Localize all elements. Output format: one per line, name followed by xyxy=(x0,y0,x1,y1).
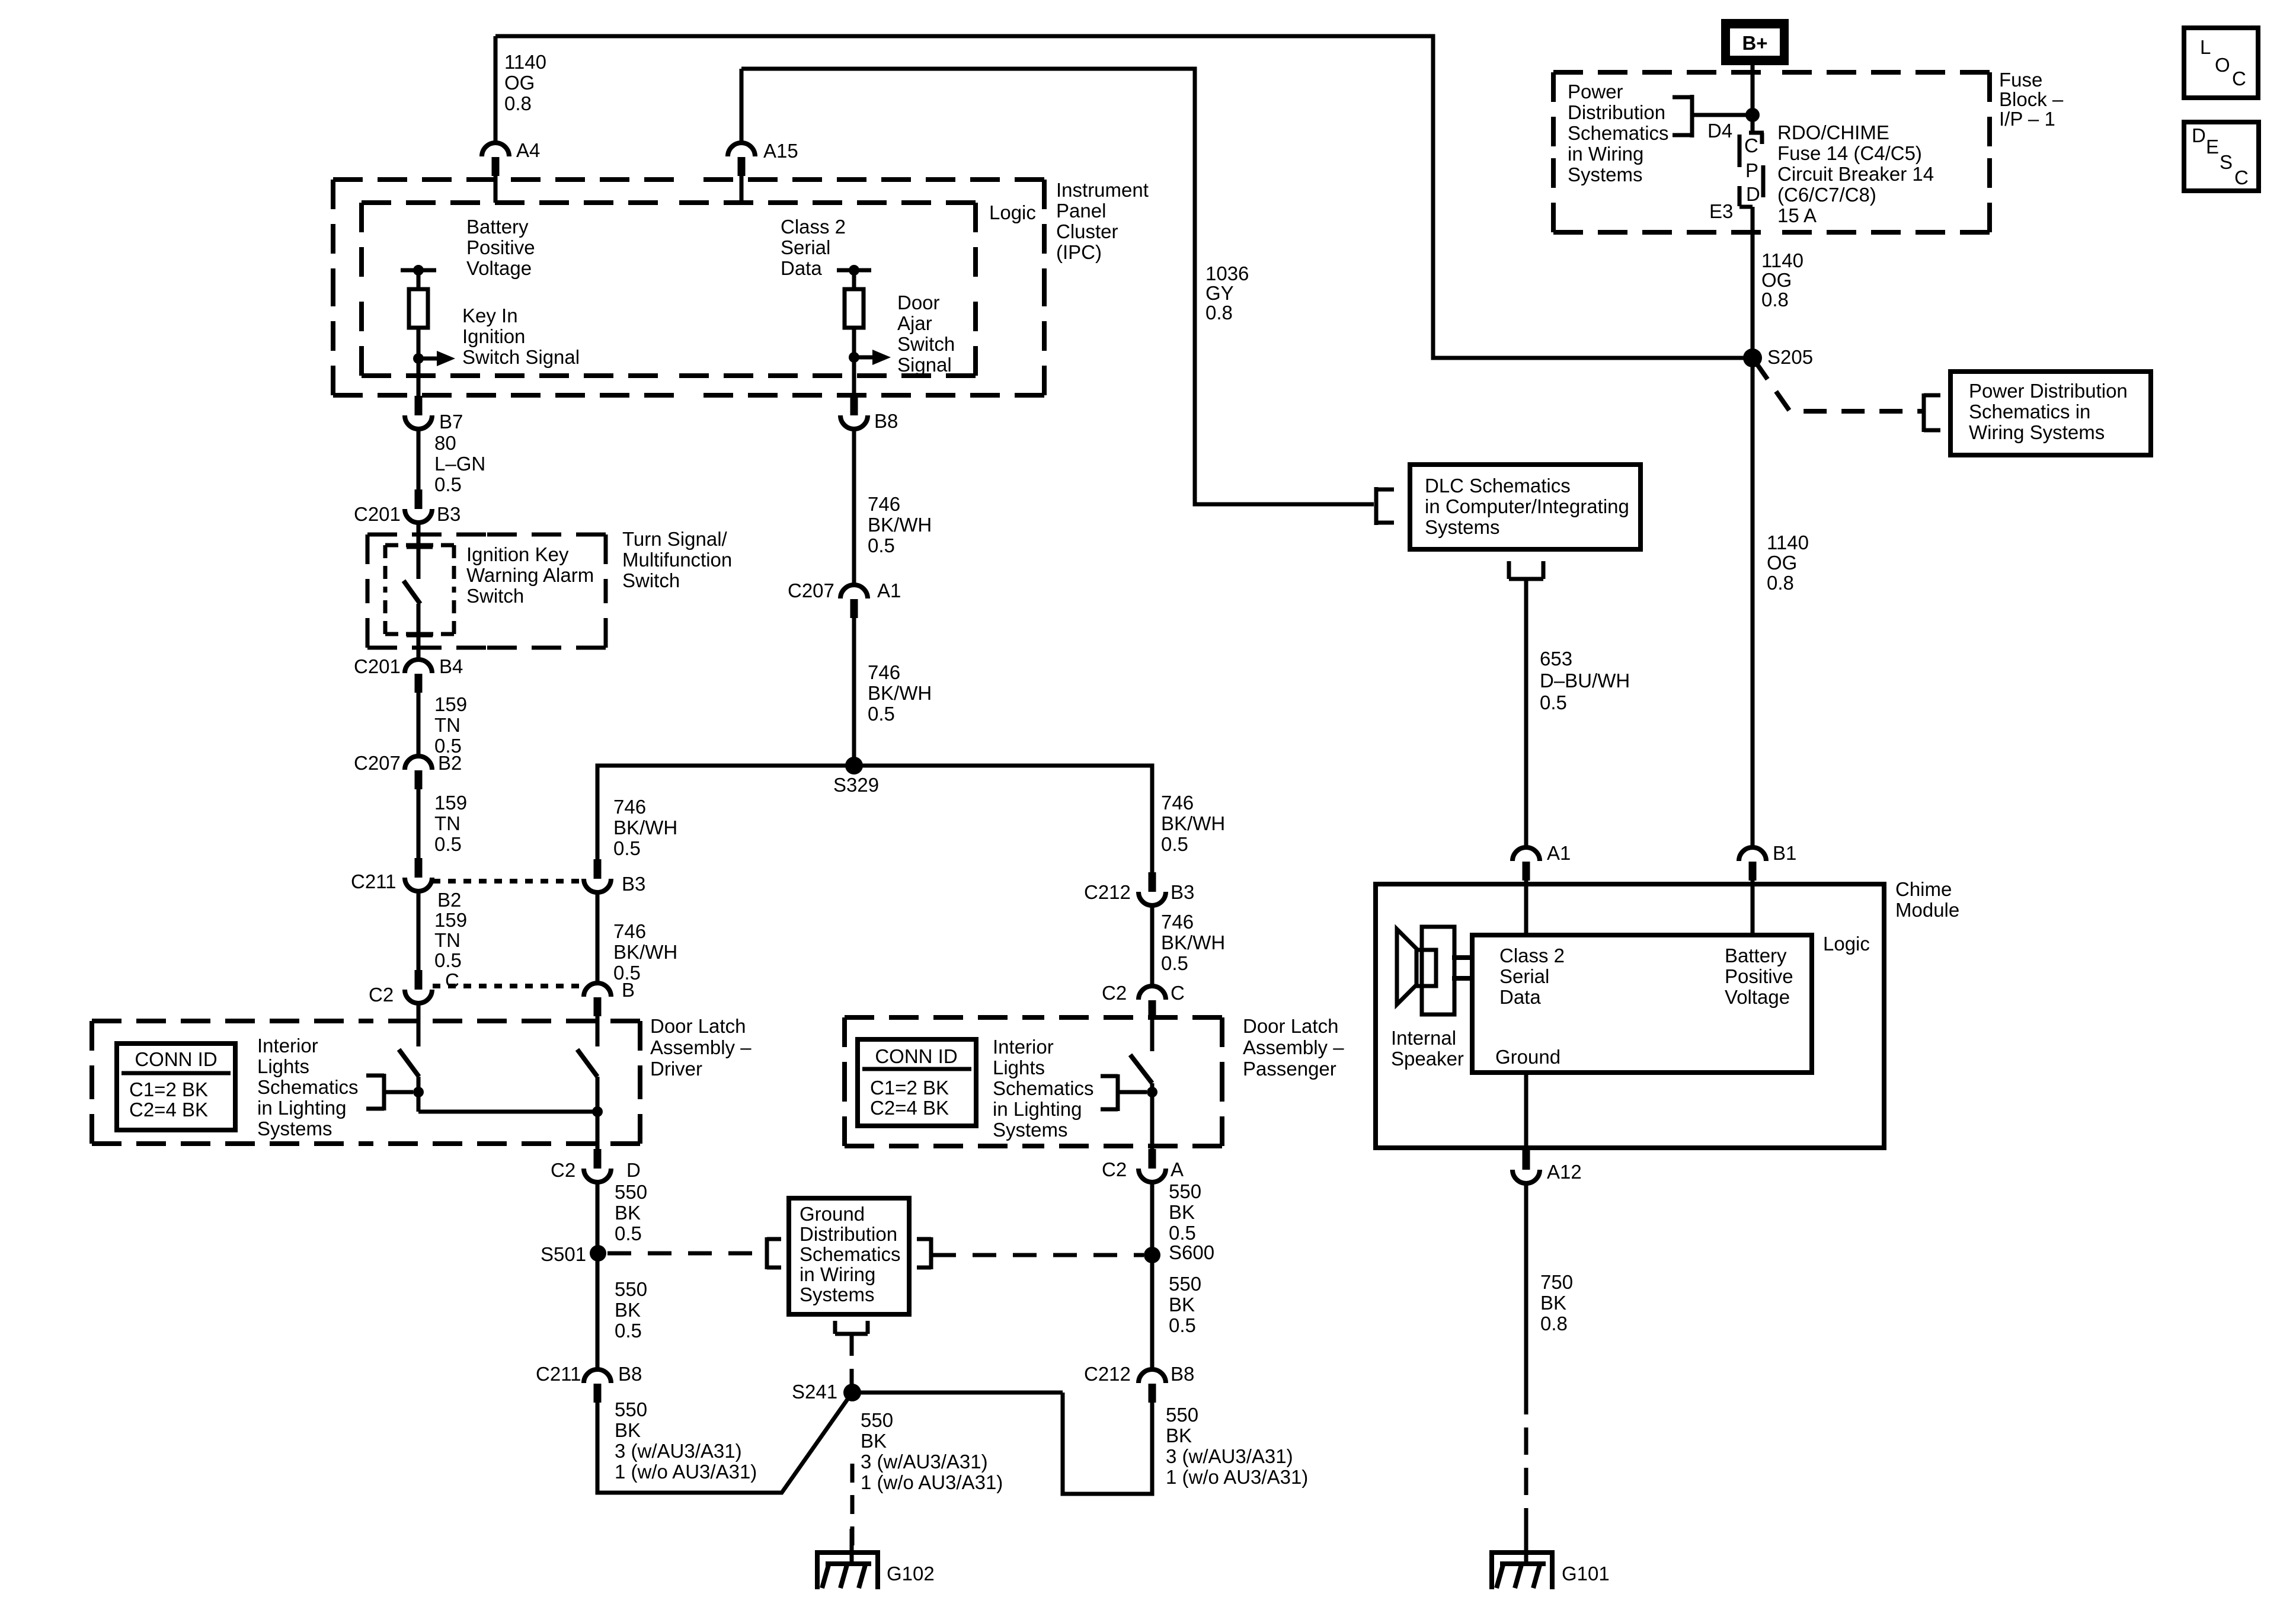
node: door-ajar signal junction xyxy=(849,352,859,363)
resistor key-in ignition (IPC) xyxy=(409,289,428,328)
svg-text:C207: C207 xyxy=(788,580,834,601)
wire: S241 to passenger loop xyxy=(852,1391,1063,1395)
svg-text:B1: B1 xyxy=(1773,842,1796,864)
IPC Logic inner dashed box xyxy=(362,200,669,205)
svg-text:S329: S329 xyxy=(833,774,879,796)
CONN ID box (driver) xyxy=(117,1044,235,1130)
svg-text:E: E xyxy=(2206,136,2219,158)
svg-text:Schematics: Schematics xyxy=(1568,122,1669,144)
connector C211 B8 xyxy=(584,1369,611,1383)
svg-text:Switch Signal: Switch Signal xyxy=(462,346,580,368)
wire: C211 B8 to S241 xyxy=(597,1393,852,1493)
node: latch switch tie xyxy=(1147,1087,1157,1097)
resistor door ajar (IPC) xyxy=(845,289,864,328)
Power Distribution Schematics in Wiring Systems box xyxy=(1950,372,2151,455)
svg-text:Wiring Systems: Wiring Systems xyxy=(1969,421,2105,443)
svg-text:C: C xyxy=(2234,167,2249,188)
wire: A1 pin to logic xyxy=(1524,881,1528,935)
switch blade driver latch left xyxy=(399,1049,419,1077)
svg-text:C201: C201 xyxy=(354,503,401,525)
svg-text:C2: C2 xyxy=(1102,1158,1127,1180)
signal arrow: Key In Ignition Switch Signal xyxy=(422,357,437,361)
connector A4 (IPC) xyxy=(482,143,509,156)
svg-text:Switch: Switch xyxy=(622,569,680,591)
svg-text:Power Distribution: Power Distribution xyxy=(1969,380,2128,402)
node: key-in signal junction xyxy=(413,353,424,364)
Door Latch Assembly - Passenger dashed box xyxy=(845,1015,1034,1020)
svg-text:Speaker: Speaker xyxy=(1391,1048,1464,1070)
node S205 xyxy=(1743,348,1762,367)
svg-text:A12: A12 xyxy=(1547,1161,1582,1183)
svg-text:S501: S501 xyxy=(541,1243,586,1265)
svg-text:Schematics in: Schematics in xyxy=(1969,401,2090,422)
svg-text:0.8: 0.8 xyxy=(504,92,532,114)
wire: A15 drop xyxy=(740,69,744,144)
connector C212 B8 xyxy=(1139,1369,1166,1383)
svg-text:Door: Door xyxy=(897,292,940,313)
svg-text:159: 159 xyxy=(434,792,467,814)
svg-text:159: 159 xyxy=(434,909,467,931)
svg-text:Fuse: Fuse xyxy=(1999,69,2042,91)
svg-text:Fuse 14 (C4/C5): Fuse 14 (C4/C5) xyxy=(1777,142,1922,164)
bracket DLC box bottom xyxy=(1507,561,1511,579)
wire: C207 B2 to C211 B2 xyxy=(417,789,421,858)
svg-text:746: 746 xyxy=(613,920,646,942)
svg-text:0.5: 0.5 xyxy=(1161,952,1188,974)
svg-text:Schematics: Schematics xyxy=(800,1243,901,1265)
svg-text:Passenger: Passenger xyxy=(1243,1058,1336,1080)
svg-text:in Lighting: in Lighting xyxy=(993,1098,1082,1120)
svg-text:550: 550 xyxy=(615,1398,647,1420)
svg-text:Chime: Chime xyxy=(1895,878,1952,900)
svg-text:0.5: 0.5 xyxy=(1540,692,1567,713)
svg-text:C2: C2 xyxy=(1102,982,1127,1004)
svg-text:Serial: Serial xyxy=(781,236,830,258)
svg-text:B8: B8 xyxy=(874,410,898,432)
svg-text:A15: A15 xyxy=(763,140,798,162)
svg-text:Multifunction: Multifunction xyxy=(622,549,732,571)
svg-text:1140: 1140 xyxy=(1767,532,1809,553)
svg-text:TN: TN xyxy=(434,714,461,736)
svg-text:1036: 1036 xyxy=(1205,263,1249,284)
wire: A4 pin into IPC xyxy=(494,176,498,203)
svg-text:A1: A1 xyxy=(1547,842,1571,864)
switch blade passenger latch xyxy=(1130,1055,1152,1083)
svg-text:80: 80 xyxy=(434,432,456,454)
svg-text:159: 159 xyxy=(434,693,467,715)
svg-text:B: B xyxy=(622,979,635,1001)
wire: S501 to C211 B8 xyxy=(596,1253,600,1370)
svg-text:Circuit Breaker 14: Circuit Breaker 14 xyxy=(1777,163,1934,185)
node: latch switch tie xyxy=(413,1087,424,1097)
svg-text:TN: TN xyxy=(434,929,461,951)
svg-text:0.5: 0.5 xyxy=(434,949,462,971)
svg-text:0.5: 0.5 xyxy=(868,534,895,556)
svg-text:C1=2 BK: C1=2 BK xyxy=(129,1078,208,1100)
wire: C2 A to S600 xyxy=(1150,1182,1155,1255)
svg-text:A1: A1 xyxy=(877,580,901,601)
svg-text:0.5: 0.5 xyxy=(615,1222,642,1244)
Instrument Panel Cluster outer dashed box xyxy=(333,177,689,182)
svg-text:L: L xyxy=(2200,36,2211,58)
bracket GD box bottom xyxy=(833,1321,837,1334)
dotted connector tie C211 B2-B3 xyxy=(433,879,584,884)
svg-text:Cluster: Cluster xyxy=(1056,220,1118,242)
svg-text:750: 750 xyxy=(1540,1271,1573,1293)
svg-text:C212: C212 xyxy=(1084,881,1131,903)
internal speaker symbol xyxy=(1397,929,1416,1004)
svg-text:Systems: Systems xyxy=(800,1283,875,1305)
wire: B1 pin to logic xyxy=(1751,881,1755,935)
wire xyxy=(417,328,421,359)
svg-text:746: 746 xyxy=(1161,792,1194,814)
svg-text:B3: B3 xyxy=(622,873,645,895)
wire: D4 tap xyxy=(1692,113,1753,117)
svg-text:C211: C211 xyxy=(536,1363,581,1385)
power symbol B+ xyxy=(1721,19,1789,65)
svg-text:RDO/CHIME: RDO/CHIME xyxy=(1777,121,1889,143)
Fuse Block - I/P - 1 dashed box xyxy=(1553,70,1771,75)
svg-text:0.5: 0.5 xyxy=(1169,1222,1196,1244)
wire: S329 branch right to passenger latch xyxy=(854,766,1152,872)
wire xyxy=(852,328,856,357)
wire: C2 C into latch xyxy=(1150,1019,1155,1051)
wire: A12 to ground (750 BK) xyxy=(1524,1183,1528,1387)
fuse/circuit-breaker CPD symbol (RDO/CHIME Fuse 14) xyxy=(1749,131,1764,135)
svg-text:OG: OG xyxy=(1761,269,1792,291)
svg-text:B3: B3 xyxy=(437,503,461,525)
svg-text:Assembly –: Assembly – xyxy=(1243,1036,1344,1058)
svg-text:BK: BK xyxy=(615,1419,641,1441)
dashed link S205 to Power Distribution Schematics xyxy=(1754,360,1922,411)
bracket to Interior Lights Schematics (driver) xyxy=(382,1074,386,1110)
svg-text:BK/WH: BK/WH xyxy=(1161,812,1225,834)
svg-text:C207: C207 xyxy=(354,752,401,774)
node S501 xyxy=(590,1245,606,1262)
svg-text:in Computer/Integrating: in Computer/Integrating xyxy=(1425,495,1629,517)
svg-text:O: O xyxy=(2215,54,2230,76)
svg-text:E3: E3 xyxy=(1709,200,1733,222)
wire: B+ into fuse block xyxy=(1751,65,1755,133)
svg-text:Class 2: Class 2 xyxy=(781,216,846,238)
svg-text:Module: Module xyxy=(1895,899,1959,921)
svg-text:Lights: Lights xyxy=(257,1055,309,1077)
svg-text:Distribution: Distribution xyxy=(1568,101,1665,123)
svg-text:1140: 1140 xyxy=(1761,249,1803,271)
wire: C2 C into latch xyxy=(417,1003,421,1046)
svg-text:BK: BK xyxy=(1166,1425,1192,1446)
svg-text:BK/WH: BK/WH xyxy=(868,514,932,536)
svg-text:A: A xyxy=(1171,1158,1184,1180)
svg-text:BK/WH: BK/WH xyxy=(613,817,677,838)
svg-text:(IPC): (IPC) xyxy=(1056,241,1102,263)
svg-text:Positive: Positive xyxy=(466,236,535,258)
svg-text:0.5: 0.5 xyxy=(615,1320,642,1342)
svg-text:Systems: Systems xyxy=(1568,164,1643,185)
connector B8 (IPC) xyxy=(850,396,858,415)
svg-text:P: P xyxy=(1745,159,1758,181)
svg-text:C201: C201 xyxy=(354,655,401,677)
svg-text:OG: OG xyxy=(504,72,535,94)
CONN ID box (passenger) xyxy=(858,1039,976,1126)
dotted connector tie C2 C-B xyxy=(433,984,584,988)
svg-text:Ignition: Ignition xyxy=(462,325,525,347)
svg-text:Interior: Interior xyxy=(993,1036,1054,1058)
svg-text:B8: B8 xyxy=(1171,1363,1194,1385)
svg-text:Systems: Systems xyxy=(1425,516,1500,538)
svg-text:15 A: 15 A xyxy=(1777,204,1817,226)
svg-text:D: D xyxy=(2192,124,2206,146)
svg-text:Driver: Driver xyxy=(650,1058,702,1080)
wire: C211 B3 to C2 B xyxy=(596,892,600,984)
svg-text:3 (w/AU3/A31): 3 (w/AU3/A31) xyxy=(861,1451,988,1473)
svg-text:Interior: Interior xyxy=(257,1035,318,1057)
svg-text:Data: Data xyxy=(1499,986,1541,1008)
svg-text:C: C xyxy=(1744,135,1758,156)
signal arrow: Door Ajar Switch Signal xyxy=(858,356,872,360)
connector C2 B (driver latch) xyxy=(584,983,611,997)
svg-text:0.8: 0.8 xyxy=(1205,302,1233,324)
connector C211 B3 xyxy=(594,859,602,879)
svg-text:G102: G102 xyxy=(887,1563,935,1585)
connector C211 B2 xyxy=(415,858,423,878)
svg-text:BK/WH: BK/WH xyxy=(868,682,932,704)
wire: C211 B2 to C2 C xyxy=(417,891,421,970)
connector A1 (chime module) xyxy=(1512,847,1540,861)
wire xyxy=(596,1077,600,1149)
dashed link S501 to Ground Distribution xyxy=(607,1251,764,1256)
switch contact bar bottom xyxy=(407,633,433,638)
svg-text:550: 550 xyxy=(861,1409,893,1431)
wire xyxy=(417,270,421,289)
svg-text:3 (w/AU3/A31): 3 (w/AU3/A31) xyxy=(615,1440,742,1462)
svg-text:Switch: Switch xyxy=(466,585,524,607)
wire xyxy=(1150,1083,1155,1149)
wire: S329 branch left to driver latch xyxy=(597,766,854,859)
svg-text:3 (w/AU3/A31): 3 (w/AU3/A31) xyxy=(1166,1445,1293,1467)
connector C2 C (driver latch) xyxy=(415,970,423,990)
svg-text:D: D xyxy=(1746,183,1760,205)
wire: class-2 serial data A15 to DLC (1036 GY) xyxy=(741,69,1374,504)
LOC reference box xyxy=(2184,28,2258,98)
svg-text:(C6/C7/C8): (C6/C7/C8) xyxy=(1777,184,1876,206)
svg-text:S600: S600 xyxy=(1169,1241,1214,1263)
svg-text:Serial: Serial xyxy=(1499,965,1549,987)
switch contact bar top xyxy=(407,545,433,549)
svg-text:C2: C2 xyxy=(551,1159,575,1181)
svg-text:Power: Power xyxy=(1568,81,1623,103)
svg-text:Voltage: Voltage xyxy=(1725,986,1790,1008)
svg-text:Distribution: Distribution xyxy=(800,1223,897,1245)
connector C201 B4 xyxy=(405,660,432,673)
svg-text:B+: B+ xyxy=(1742,32,1767,54)
bracket GD box left xyxy=(765,1237,769,1269)
node S329 xyxy=(845,757,863,774)
svg-text:Turn Signal/: Turn Signal/ xyxy=(622,528,728,550)
DLC Schematics box xyxy=(1410,465,1641,549)
svg-text:Instrument: Instrument xyxy=(1056,179,1149,201)
connector C2 C (passenger latch) xyxy=(1139,986,1166,1000)
svg-text:0.5: 0.5 xyxy=(868,703,895,725)
wire: B7 to C201 B3 xyxy=(417,428,421,489)
svg-text:0.8: 0.8 xyxy=(1767,572,1794,594)
svg-text:550: 550 xyxy=(615,1278,647,1300)
svg-text:Ajar: Ajar xyxy=(897,312,932,334)
svg-text:0.8: 0.8 xyxy=(1540,1313,1568,1334)
svg-text:BK/WH: BK/WH xyxy=(613,941,677,963)
wire: battery feed from fuse block S205 to IPC A4 (1140 OG) xyxy=(495,36,1753,358)
svg-text:B3: B3 xyxy=(1171,881,1194,903)
bracket D4 to Power Distribution Schematics xyxy=(1690,95,1694,137)
svg-text:746: 746 xyxy=(613,796,646,818)
svg-text:Battery: Battery xyxy=(466,216,529,238)
wire: DLC to chime A1 (653 D-BU/WH) xyxy=(1524,579,1528,848)
svg-text:B7: B7 xyxy=(439,411,463,433)
svg-text:OG: OG xyxy=(1767,552,1797,574)
svg-text:D4: D4 xyxy=(1707,120,1732,142)
bracket GD box right xyxy=(929,1237,933,1269)
svg-text:0.5: 0.5 xyxy=(1169,1314,1196,1336)
Ignition Key Warning Alarm Switch inner dashed box xyxy=(385,543,420,548)
svg-text:Door Latch: Door Latch xyxy=(1243,1015,1338,1037)
svg-text:C: C xyxy=(2232,68,2246,89)
svg-text:S241: S241 xyxy=(792,1381,837,1403)
svg-text:Key In: Key In xyxy=(462,305,518,327)
svg-text:L–GN: L–GN xyxy=(434,453,485,475)
svg-text:Warning Alarm: Warning Alarm xyxy=(466,564,594,586)
wire: A4 drop xyxy=(494,36,498,144)
svg-text:C211: C211 xyxy=(351,870,396,892)
connector B1 (chime module) xyxy=(1739,847,1766,861)
svg-text:in Wiring: in Wiring xyxy=(800,1263,875,1285)
svg-text:BK: BK xyxy=(615,1299,641,1321)
svg-text:S205: S205 xyxy=(1767,346,1813,368)
svg-text:Lights: Lights xyxy=(993,1057,1045,1078)
node: key-in rail tap xyxy=(401,268,436,273)
svg-text:GY: GY xyxy=(1205,282,1234,304)
svg-text:C: C xyxy=(1171,982,1185,1004)
svg-text:550: 550 xyxy=(1166,1404,1198,1426)
connector A15 (IPC) xyxy=(728,143,755,156)
svg-text:Block –: Block – xyxy=(1999,88,2064,110)
svg-text:Assembly –: Assembly – xyxy=(650,1036,752,1058)
node S241 xyxy=(843,1384,861,1401)
wire: key-in signal to B7 xyxy=(417,359,421,398)
svg-text:Data: Data xyxy=(781,257,822,279)
svg-text:Ground: Ground xyxy=(1495,1046,1560,1068)
connector C207 B2 xyxy=(405,756,432,770)
wire: E3 to S205 to B1 (1140 OG) xyxy=(1751,207,1755,848)
svg-text:C2=4 BK: C2=4 BK xyxy=(129,1099,208,1121)
svg-text:BK: BK xyxy=(1169,1294,1195,1315)
svg-text:DLC Schematics: DLC Schematics xyxy=(1425,475,1571,497)
svg-text:C212: C212 xyxy=(1084,1363,1131,1385)
svg-text:746: 746 xyxy=(868,661,900,683)
wire: chime ground out xyxy=(1524,1073,1528,1150)
svg-text:in Lighting: in Lighting xyxy=(257,1097,346,1119)
svg-text:B2: B2 xyxy=(437,889,461,911)
svg-text:BK: BK xyxy=(861,1430,887,1452)
svg-text:0.5: 0.5 xyxy=(613,837,641,859)
svg-text:I/P – 1: I/P – 1 xyxy=(1999,108,2055,130)
wire: S600 to C212 B8 xyxy=(1150,1255,1155,1370)
svg-text:1140: 1140 xyxy=(504,51,546,73)
svg-text:550: 550 xyxy=(1169,1273,1201,1295)
svg-text:Voltage: Voltage xyxy=(466,257,532,279)
svg-text:0.5: 0.5 xyxy=(434,473,462,495)
svg-text:746: 746 xyxy=(1161,911,1194,933)
wire: C212 B8 loop to S241 xyxy=(1063,1393,1152,1494)
svg-text:550: 550 xyxy=(615,1181,647,1203)
svg-text:Panel: Panel xyxy=(1056,200,1106,222)
svg-text:550: 550 xyxy=(1169,1180,1201,1202)
node xyxy=(592,1106,603,1117)
connector B7 (IPC) xyxy=(415,396,423,415)
svg-text:S: S xyxy=(2220,151,2233,173)
svg-text:C1=2 BK: C1=2 BK xyxy=(870,1077,949,1099)
connector C2 A (passenger latch) xyxy=(1149,1149,1156,1169)
connector C212 B3 xyxy=(1149,872,1156,892)
Ground Distribution Schematics box xyxy=(789,1198,909,1314)
svg-text:Signal: Signal xyxy=(897,354,952,376)
connector A12 (chime module) xyxy=(1523,1150,1530,1170)
svg-text:Ignition Key: Ignition Key xyxy=(466,543,569,565)
svg-text:Schematics: Schematics xyxy=(993,1077,1094,1099)
bracket to DLC box xyxy=(1374,487,1379,525)
svg-text:653: 653 xyxy=(1540,648,1572,670)
wire xyxy=(852,270,856,289)
svg-text:G101: G101 xyxy=(1562,1563,1610,1585)
connector C201 B3 xyxy=(415,489,423,509)
svg-text:1 (w/o AU3/A31): 1 (w/o AU3/A31) xyxy=(1166,1466,1308,1488)
node: door-ajar rail tap xyxy=(837,268,871,273)
svg-text:BK: BK xyxy=(1169,1201,1195,1223)
svg-text:CONN ID: CONN ID xyxy=(135,1048,217,1070)
Chime Module box xyxy=(1376,884,1884,1148)
svg-text:D–BU/WH: D–BU/WH xyxy=(1540,670,1630,692)
connector C207 A1 xyxy=(840,585,868,598)
wire: A15 pin into IPC xyxy=(740,176,744,203)
bracket to Interior Lights Schematics (passenger) xyxy=(1116,1074,1120,1111)
switch blade driver latch right xyxy=(577,1049,597,1077)
wire: C2 B into latch xyxy=(596,1016,600,1046)
svg-text:Door Latch: Door Latch xyxy=(650,1015,746,1037)
svg-text:in Wiring: in Wiring xyxy=(1568,143,1643,165)
wire: door-ajar signal to B8 xyxy=(852,357,856,398)
svg-text:B2: B2 xyxy=(438,752,462,774)
ground G102 xyxy=(815,1550,880,1555)
bracket to Power Distribution box xyxy=(1922,393,1926,432)
wire: B8 to C207 A1 xyxy=(852,428,856,585)
svg-text:BK: BK xyxy=(1540,1292,1566,1314)
ground G101 xyxy=(1489,1550,1555,1555)
svg-text:C2=4 BK: C2=4 BK xyxy=(870,1097,949,1119)
DESC reference box xyxy=(2184,122,2259,191)
svg-text:CONN ID: CONN ID xyxy=(875,1045,957,1067)
svg-text:1 (w/o AU3/A31): 1 (w/o AU3/A31) xyxy=(861,1471,1003,1493)
wire: C201 B3 into switch xyxy=(417,522,421,579)
dashed link GD to S241 xyxy=(850,1336,854,1384)
Door Latch Assembly - Driver dashed box xyxy=(92,1019,366,1023)
svg-text:BK: BK xyxy=(615,1202,641,1224)
svg-text:C2: C2 xyxy=(369,984,394,1006)
dashed wire to G101 xyxy=(1524,1387,1528,1548)
connector C2 D (driver latch) xyxy=(594,1149,602,1169)
dashed link S600 to Ground Distribution xyxy=(932,1253,1144,1257)
svg-text:0.5: 0.5 xyxy=(434,833,462,855)
svg-text:Logic: Logic xyxy=(1823,933,1870,955)
svg-text:A4: A4 xyxy=(516,139,540,161)
